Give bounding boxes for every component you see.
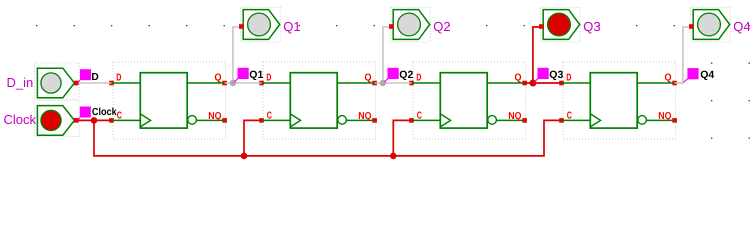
svg-text:NQ: NQ: [508, 111, 521, 122]
svg-text:C: C: [267, 110, 272, 121]
svg-text:Q1: Q1: [249, 69, 263, 81]
svg-text:C: C: [567, 110, 572, 121]
svg-text:Clock: Clock: [4, 112, 37, 127]
svg-text:D: D: [116, 73, 121, 84]
svg-text:Q4: Q4: [733, 19, 750, 34]
svg-text:Q: Q: [664, 73, 671, 84]
svg-text:D: D: [91, 72, 98, 83]
svg-text:NQ: NQ: [208, 111, 221, 122]
svg-text:Q1: Q1: [283, 19, 300, 34]
svg-text:NQ: NQ: [658, 111, 671, 122]
svg-text:Q2: Q2: [433, 19, 450, 34]
svg-text:Q: Q: [364, 73, 371, 84]
svg-text:Clock: Clock: [92, 107, 117, 118]
svg-text:C: C: [417, 110, 422, 121]
svg-text:D_in: D_in: [7, 75, 34, 90]
svg-text:Q3: Q3: [549, 69, 563, 81]
svg-text:D: D: [416, 73, 421, 84]
svg-text:C: C: [117, 110, 122, 121]
svg-text:NQ: NQ: [358, 111, 371, 122]
svg-text:Q: Q: [214, 73, 221, 84]
svg-text:Q4: Q4: [700, 69, 714, 81]
svg-text:Q: Q: [514, 73, 521, 84]
svg-text:D: D: [266, 73, 271, 84]
svg-text:Q2: Q2: [399, 69, 413, 81]
svg-text:Q3: Q3: [583, 19, 600, 34]
svg-text:D: D: [566, 73, 571, 84]
